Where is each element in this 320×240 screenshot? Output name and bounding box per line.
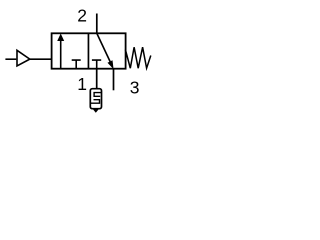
wire pilot line left segment [5, 58, 16, 60]
svg-text:3: 3 [130, 78, 140, 98]
left box blocked port T [72, 60, 81, 69]
wire pilot line right segment to valve body [30, 58, 52, 60]
silencer internal baffle meander [91, 93, 101, 104]
left box flow arrow (1 to 2) [60, 40, 62, 69]
valve body V1 (3/2-way valve, two position boxes) [52, 33, 126, 68]
wire port 2 line [96, 14, 98, 34]
svg-text:1: 1 [77, 74, 87, 94]
silencer outlet tip [93, 109, 99, 113]
valve position divider [87, 33, 89, 68]
spring return [125, 47, 150, 68]
wire port 1 line [96, 69, 98, 89]
right box blocked port T (port 1) [92, 60, 101, 69]
wire port 3 line [113, 69, 115, 91]
silencer body [90, 89, 101, 109]
background [0, 0, 160, 118]
pilot triangle (pneumatic pilot actuator) [17, 50, 30, 66]
right box exhaust arrow 2 to 3 [97, 34, 110, 63]
svg-text:2: 2 [77, 5, 87, 25]
